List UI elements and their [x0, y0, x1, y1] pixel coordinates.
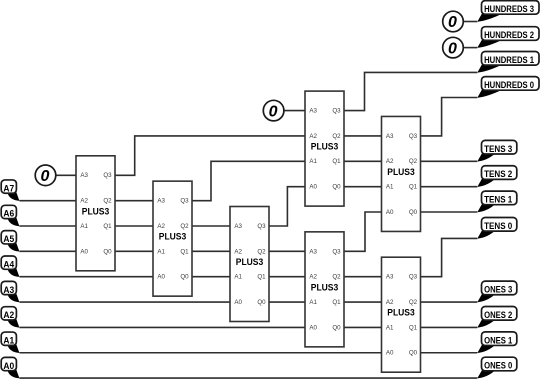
wire A5 to U1.A0 [19, 250, 76, 252]
input tag A1 [1, 332, 19, 353]
svg-text:Q3: Q3 [332, 248, 341, 255]
svg-text:Q1: Q1 [332, 299, 341, 306]
output tag HUNDREDS 1 [477, 52, 539, 73]
svg-text:PLUS3: PLUS3 [311, 142, 339, 153]
output tag ONES 1 [477, 332, 517, 353]
PLUS3 block U1 [76, 156, 115, 271]
input tag A0 [1, 357, 19, 378]
wire U4.Q3 to HUNDREDS 1 [344, 72, 477, 110]
svg-text:Q1: Q1 [332, 158, 341, 165]
wire U2.Q1 to U3.A2 [192, 250, 230, 252]
svg-text:A0: A0 [309, 184, 317, 191]
svg-text:Q3: Q3 [257, 223, 266, 230]
svg-text:Q1: Q1 [180, 248, 189, 255]
svg-text:A3: A3 [309, 248, 317, 255]
svg-text:PLUS3: PLUS3 [387, 167, 415, 178]
svg-text:Q0: Q0 [180, 274, 189, 281]
svg-text:A1: A1 [386, 184, 394, 191]
wire A0 to ONES 0 [19, 377, 477, 379]
wire U2.Q0 to U3.A1 [192, 276, 230, 278]
wire U1.Q2 to U2.A3 [115, 200, 153, 202]
wire U7.Q1 to ONES 2 [421, 326, 478, 328]
svg-text:A2: A2 [309, 274, 317, 281]
output tag ONES 0 [477, 357, 517, 378]
svg-text:Q0: Q0 [332, 324, 341, 331]
wire U5.Q0 to U7.A1 [344, 326, 382, 328]
PLUS3 block U2 [153, 181, 192, 296]
svg-text:Q2: Q2 [409, 158, 418, 165]
output tag TENS 1 [477, 191, 517, 212]
wire A7 to U1.A2 [19, 200, 76, 202]
svg-text:0: 0 [269, 103, 278, 120]
svg-text:Q1: Q1 [409, 324, 418, 331]
output tag ONES 2 [477, 307, 517, 328]
svg-text:A3: A3 [80, 172, 88, 179]
svg-text:Q3: Q3 [332, 108, 341, 115]
output tag TENS 0 [477, 218, 517, 239]
input tag A3 [1, 281, 19, 302]
svg-text:0: 0 [448, 14, 457, 31]
svg-text:A2: A2 [386, 158, 394, 165]
svg-text:Q1: Q1 [257, 274, 266, 281]
constant 0 source C3 [263, 100, 284, 121]
svg-text:A3: A3 [157, 198, 165, 205]
svg-text:A2: A2 [80, 198, 88, 205]
svg-text:A0: A0 [386, 209, 394, 216]
output tag HUNDREDS 3 [477, 1, 539, 22]
output tag HUNDREDS 2 [477, 27, 539, 48]
PLUS3 block U3 [230, 207, 269, 322]
svg-text:A6: A6 [3, 209, 14, 219]
wire U3.Q3 to U4.A0 [269, 187, 305, 226]
svg-text:Q3: Q3 [180, 198, 189, 205]
svg-text:Q3: Q3 [409, 133, 418, 140]
svg-text:ONES 1: ONES 1 [484, 335, 512, 345]
wire U5.Q1 to U7.A2 [344, 301, 382, 303]
svg-text:PLUS3: PLUS3 [82, 206, 110, 217]
svg-text:A2: A2 [386, 299, 394, 306]
svg-text:A0: A0 [3, 361, 14, 371]
PLUS3 block U7 [382, 257, 421, 372]
input tag A5 [1, 231, 19, 252]
svg-text:Q3: Q3 [103, 172, 112, 179]
svg-text:A3: A3 [386, 274, 394, 281]
svg-text:A0: A0 [157, 274, 165, 281]
svg-text:A2: A2 [157, 223, 165, 230]
wire A6 to U1.A1 [19, 225, 76, 227]
svg-text:Q2: Q2 [257, 248, 266, 255]
svg-text:Q2: Q2 [180, 223, 189, 230]
svg-text:HUNDREDS 0: HUNDREDS 0 [484, 80, 534, 90]
svg-text:A0: A0 [234, 299, 242, 306]
svg-text:Q2: Q2 [409, 299, 418, 306]
wire U3.Q0 to U5.A1 [269, 301, 305, 303]
wire const C2 to HUNDREDS 2 [463, 47, 477, 49]
svg-text:Q3: Q3 [409, 274, 418, 281]
svg-text:A1: A1 [234, 274, 242, 281]
svg-text:A5: A5 [3, 234, 14, 244]
wire U7.Q0 to ONES 1 [421, 352, 478, 354]
svg-text:PLUS3: PLUS3 [159, 232, 187, 243]
svg-text:0: 0 [41, 168, 50, 185]
svg-text:TENS 1: TENS 1 [484, 195, 512, 205]
constant 0 source C2 [443, 37, 464, 58]
PLUS3 block U4 [305, 91, 344, 206]
svg-text:Q2: Q2 [103, 198, 112, 205]
wire U4.Q1 to U6.A2 [344, 160, 382, 162]
PLUS3 block U6 [382, 116, 421, 231]
svg-text:A1: A1 [309, 158, 317, 165]
wire U6.Q2 to TENS 3 [421, 160, 478, 162]
input tag A7 [1, 180, 19, 201]
svg-text:Q0: Q0 [103, 248, 112, 255]
svg-text:A3: A3 [309, 108, 317, 115]
wire U2.Q3 to U4.A1 [192, 161, 305, 200]
wire const C3 to U4.A3 [284, 110, 305, 112]
svg-text:A1: A1 [80, 223, 88, 230]
svg-text:TENS 0: TENS 0 [484, 221, 512, 231]
svg-text:A2: A2 [309, 133, 317, 140]
svg-text:A3: A3 [234, 223, 242, 230]
wire A2 to U5.A0 [19, 326, 305, 328]
svg-text:A2: A2 [3, 310, 14, 320]
svg-text:Q0: Q0 [332, 184, 341, 191]
svg-text:ONES 0: ONES 0 [484, 361, 512, 371]
svg-text:Q2: Q2 [332, 133, 341, 140]
svg-text:A2: A2 [234, 248, 242, 255]
svg-text:Q1: Q1 [103, 223, 112, 230]
svg-text:HUNDREDS 1: HUNDREDS 1 [484, 55, 534, 65]
svg-text:A0: A0 [386, 350, 394, 357]
wire U4.Q0 to U6.A1 [344, 186, 382, 188]
wire U4.Q2 to U6.A3 [344, 135, 382, 137]
svg-text:Q0: Q0 [257, 299, 266, 306]
output tag TENS 3 [477, 140, 517, 161]
svg-text:A1: A1 [386, 324, 394, 331]
constant 0 source C1 [443, 11, 464, 32]
svg-text:A1: A1 [309, 299, 317, 306]
wire U7.Q3 to TENS 0 [421, 238, 478, 276]
wire U3.Q1 to U5.A2 [269, 276, 305, 278]
input tag A6 [1, 205, 19, 226]
svg-text:0: 0 [448, 40, 457, 57]
wire U2.Q2 to U3.A3 [192, 225, 230, 227]
svg-text:TENS 2: TENS 2 [484, 169, 512, 179]
wire const C1 to HUNDREDS 3 [463, 21, 477, 23]
svg-text:A3: A3 [386, 133, 394, 140]
wire U1.Q0 to U2.A1 [115, 250, 153, 252]
wire U6.Q1 to TENS 2 [421, 186, 478, 188]
wire const C4 to U1.A3 [56, 174, 76, 176]
PLUS3 block U5 [305, 232, 344, 347]
svg-text:Q0: Q0 [409, 209, 418, 216]
svg-text:A1: A1 [3, 335, 14, 345]
wire A3 to U3.A0 [19, 301, 230, 303]
wire U6.Q0 to TENS 1 [421, 211, 478, 213]
wire U1.Q3 to U4.A2 [115, 136, 305, 175]
svg-text:PLUS3: PLUS3 [236, 257, 264, 268]
wire U7.Q2 to ONES 3 [421, 301, 478, 303]
wire U1.Q1 to U2.A2 [115, 225, 153, 227]
svg-text:PLUS3: PLUS3 [387, 308, 415, 319]
svg-text:PLUS3: PLUS3 [311, 282, 339, 293]
svg-text:Q1: Q1 [409, 184, 418, 191]
output tag TENS 2 [477, 166, 517, 187]
svg-text:A7: A7 [3, 183, 14, 193]
svg-text:A0: A0 [309, 324, 317, 331]
wire U5.Q3 to U6.A0 [344, 212, 382, 251]
output tag HUNDREDS 0 [477, 77, 539, 98]
wire U6.Q3 to HUNDREDS 0 [421, 98, 478, 136]
wire U5.Q2 to U7.A3 [344, 276, 382, 278]
svg-text:A1: A1 [157, 248, 165, 255]
svg-text:TENS 3: TENS 3 [484, 144, 512, 154]
svg-text:ONES 2: ONES 2 [484, 310, 512, 320]
svg-text:A0: A0 [80, 248, 88, 255]
wire A1 to U7.A0 [19, 352, 381, 354]
svg-text:ONES 3: ONES 3 [484, 285, 512, 295]
input tag A4 [1, 256, 19, 277]
output tag ONES 3 [477, 281, 517, 302]
svg-text:A3: A3 [3, 285, 14, 295]
svg-text:A4: A4 [3, 259, 15, 269]
svg-text:HUNDREDS 2: HUNDREDS 2 [484, 30, 534, 40]
constant 0 source C4 [35, 165, 56, 186]
svg-text:Q2: Q2 [332, 274, 341, 281]
input tag A2 [1, 307, 19, 328]
wire U3.Q2 to U5.A3 [269, 250, 305, 252]
svg-text:HUNDREDS 3: HUNDREDS 3 [484, 4, 534, 14]
wire A4 to U2.A0 [19, 276, 153, 278]
svg-text:Q0: Q0 [409, 350, 418, 357]
